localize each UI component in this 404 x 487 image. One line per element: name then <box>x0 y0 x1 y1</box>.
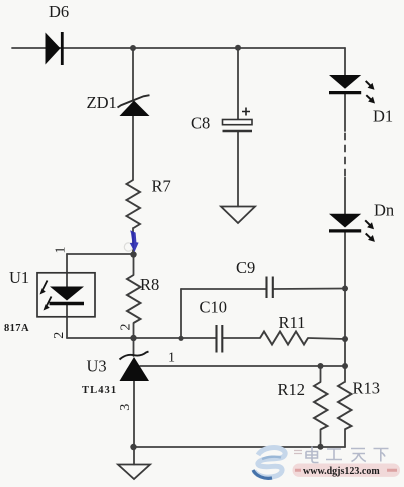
svg-text:R13: R13 <box>353 379 381 398</box>
svg-text:R12: R12 <box>278 380 306 399</box>
svg-text:R8: R8 <box>140 275 159 294</box>
svg-text:C10: C10 <box>200 298 228 317</box>
svg-text:2: 2 <box>52 332 67 339</box>
svg-text:C9: C9 <box>236 258 255 277</box>
svg-text:1: 1 <box>168 351 175 366</box>
svg-text:TL431: TL431 <box>82 385 117 396</box>
svg-text:D1: D1 <box>373 107 393 126</box>
svg-text:2: 2 <box>119 324 134 331</box>
svg-text:3: 3 <box>118 404 133 411</box>
svg-text:D6: D6 <box>49 2 69 21</box>
svg-text:C8: C8 <box>191 114 210 133</box>
svg-text:R11: R11 <box>279 313 306 332</box>
svg-text:R7: R7 <box>152 177 171 196</box>
svg-text:U1: U1 <box>9 268 29 287</box>
svg-text:U3: U3 <box>87 357 107 376</box>
svg-text:817A: 817A <box>4 323 29 334</box>
svg-text:1: 1 <box>53 247 68 254</box>
svg-text:www.dgjs123.com: www.dgjs123.com <box>303 466 380 477</box>
svg-text:Dn: Dn <box>374 201 394 220</box>
svg-text:ZD1: ZD1 <box>87 93 117 112</box>
